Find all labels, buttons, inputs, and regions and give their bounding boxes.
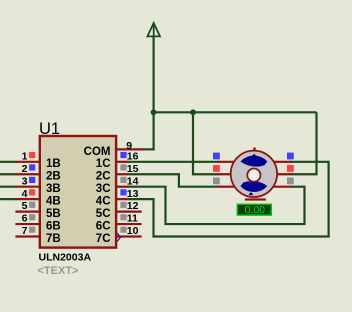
state square pin6 gray — [29, 214, 35, 220]
motor state square left-bottom gray — [213, 178, 220, 185]
pin 13 — [116, 198, 129, 200]
wire V+ drop to motor left-middle — [193, 112, 218, 174]
wire input 4 — [0, 198, 16, 200]
wire V+ vertical from arrow down to COM row — [153, 36, 155, 150]
unconnected marker pin10 blue chevron — [117, 233, 121, 242]
svg-text:3B: 3B — [46, 183, 61, 195]
svg-text:6C: 6C — [96, 220, 111, 232]
wire input 2 — [0, 173, 16, 175]
motor pin right-top stub — [273, 161, 292, 163]
motor pin left-top stub — [217, 161, 235, 163]
wire net 1C pin16 to motor left-top — [129, 161, 219, 163]
svg-text:10: 10 — [127, 225, 139, 237]
svg-text:16: 16 — [127, 150, 139, 162]
state square pin11 gray — [120, 214, 126, 220]
motor M1 stepper — [213, 148, 294, 201]
svg-text:11: 11 — [127, 213, 138, 225]
pin 16 — [116, 161, 129, 163]
pin 7 — [15, 235, 40, 237]
motor state square right-top blue — [287, 153, 294, 160]
state square pin7 gray — [29, 227, 35, 233]
pin 6 — [15, 223, 40, 225]
svg-text:<TEXT>: <TEXT> — [38, 265, 79, 277]
svg-text:14: 14 — [127, 175, 139, 187]
motor pin left-bottom stub — [217, 186, 235, 188]
state square pin5 gray — [29, 202, 35, 208]
junction A — [151, 109, 157, 115]
motor state square left-middle red — [213, 165, 220, 172]
wire net 2C pin15 to motor left-bottom — [129, 174, 219, 186]
motor rotor bottom arc — [240, 181, 267, 192]
wire V+ horizontal bus — [154, 111, 317, 113]
pin 11 — [116, 223, 142, 225]
power terminal V+ arrow — [147, 23, 160, 36]
wire V+ drop to motor right-middle — [291, 112, 317, 174]
motor state square right-bottom gray — [287, 178, 294, 185]
svg-text:U1: U1 — [39, 120, 60, 138]
motor pin right-middle stub — [275, 173, 292, 175]
wire net 3C pin14 to motor right-bottom — [129, 187, 305, 224]
svg-text:4C: 4C — [96, 196, 111, 208]
svg-text:15: 15 — [127, 163, 139, 175]
motor shaft hole — [247, 169, 260, 182]
motor pin left-middle stub — [217, 173, 233, 175]
motor state square right-middle red — [287, 165, 294, 172]
svg-text:7B: 7B — [46, 233, 61, 245]
svg-text:1C: 1C — [96, 158, 111, 170]
state square pin14 gray — [120, 177, 126, 183]
rpm display — [237, 204, 271, 216]
pin 12 — [116, 211, 142, 213]
svg-text:1: 1 — [22, 150, 28, 162]
wire input 1 — [0, 161, 16, 163]
svg-text:4: 4 — [22, 188, 28, 200]
svg-text:12: 12 — [127, 200, 139, 212]
svg-text:7: 7 — [22, 225, 28, 237]
svg-text:5C: 5C — [96, 208, 111, 220]
svg-text:4B: 4B — [46, 196, 61, 208]
motor rotor top arc — [240, 156, 267, 167]
svg-text:ULN2003A: ULN2003A — [39, 252, 92, 264]
svg-text:2C: 2C — [96, 171, 111, 183]
motor pin right-bottom stub — [273, 186, 292, 188]
pin 2 — [15, 173, 40, 175]
motor top nub — [253, 148, 255, 151]
svg-text:5B: 5B — [46, 208, 61, 220]
svg-text:6B: 6B — [46, 220, 61, 232]
junction B — [190, 109, 196, 115]
state square pin4 red — [29, 189, 35, 195]
state square pin10 gray — [120, 227, 126, 233]
pin 15 — [116, 173, 129, 175]
state square pin16 blue — [120, 152, 126, 158]
state square pin13 blue — [120, 189, 126, 195]
svg-text:5: 5 — [22, 200, 28, 212]
svg-text:2B: 2B — [46, 171, 61, 183]
svg-text:3C: 3C — [96, 183, 111, 195]
wire input 3 — [0, 186, 16, 188]
svg-text:COM: COM — [84, 146, 111, 158]
pin 4 — [15, 198, 40, 200]
state square pin12 gray — [120, 202, 126, 208]
wire COM pin to vertical — [143, 148, 155, 150]
pin 5 — [15, 211, 40, 213]
IC U1 body — [40, 136, 116, 248]
svg-text:1B: 1B — [46, 158, 61, 170]
motor body circle — [231, 151, 277, 197]
pin 3 — [15, 186, 40, 188]
state square pin2 blue — [29, 164, 35, 170]
svg-text:0.00: 0.00 — [245, 204, 266, 216]
motor state square left-top blue — [213, 153, 220, 160]
svg-text:13: 13 — [127, 188, 139, 200]
svg-text:6: 6 — [22, 213, 28, 225]
state square pin15 gray — [120, 164, 126, 170]
svg-text:2: 2 — [22, 163, 28, 175]
pin 10 — [116, 235, 142, 237]
svg-text:7C: 7C — [96, 233, 111, 245]
motor base bar — [245, 198, 266, 200]
svg-text:3: 3 — [22, 175, 28, 187]
pin 14 — [116, 186, 129, 188]
state square pin3 blue — [29, 177, 35, 183]
state square pin1 red — [29, 152, 35, 158]
pin 1 — [15, 161, 40, 163]
pin 9 — [116, 148, 143, 150]
wire net 4C pin13 to motor right-top — [129, 162, 329, 237]
